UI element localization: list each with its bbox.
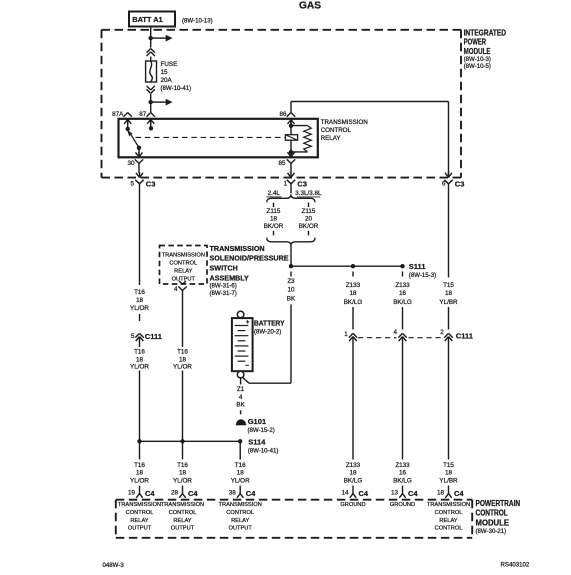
svg-text:OUTPUT: OUTPUT: [128, 526, 152, 532]
svg-text:13: 13: [391, 490, 399, 497]
svg-text:CONTROL: CONTROL: [321, 127, 352, 134]
svg-text:16: 16: [399, 290, 407, 297]
svg-text:T16: T16: [177, 462, 188, 469]
svg-text:TRANSMISSION: TRANSMISSION: [118, 502, 161, 508]
svg-text:POWERTRAIN: POWERTRAIN: [476, 499, 521, 508]
svg-text:(8W-30-21): (8W-30-21): [476, 528, 507, 535]
svg-text:YL/OR: YL/OR: [130, 305, 149, 312]
svg-text:5: 5: [130, 181, 134, 188]
svg-text:GROUND: GROUND: [340, 502, 365, 508]
svg-text:18: 18: [136, 356, 144, 363]
svg-text:28: 28: [171, 490, 179, 497]
svg-text:(8W-15-3): (8W-15-3): [409, 272, 436, 279]
svg-text:18: 18: [270, 216, 278, 223]
svg-text:18: 18: [136, 297, 144, 304]
svg-text:86: 86: [279, 111, 287, 118]
svg-text:CONTROL: CONTROL: [435, 526, 463, 532]
svg-text:T16: T16: [235, 462, 246, 469]
svg-text:C4: C4: [246, 489, 256, 498]
svg-text:POWER: POWER: [464, 38, 487, 47]
svg-text:85: 85: [278, 160, 286, 167]
svg-text:(8W-10-13): (8W-10-13): [182, 18, 213, 25]
svg-text:Z115: Z115: [302, 208, 316, 215]
svg-text:T16: T16: [177, 349, 188, 356]
svg-text:CONTROL: CONTROL: [435, 510, 463, 516]
svg-text:RELAY: RELAY: [130, 518, 148, 524]
svg-text:OUTPUT: OUTPUT: [229, 526, 253, 532]
svg-text:SWITCH: SWITCH: [210, 264, 238, 273]
svg-text:YL/OR: YL/OR: [130, 363, 149, 370]
svg-text:87: 87: [139, 111, 147, 118]
svg-text:3.3L/3.8L: 3.3L/3.8L: [295, 190, 322, 197]
svg-text:MODULE: MODULE: [476, 518, 510, 527]
svg-text:C3: C3: [455, 180, 465, 189]
svg-text:YL/OR: YL/OR: [231, 477, 250, 484]
svg-text:YL/BR: YL/BR: [439, 299, 458, 306]
svg-text:SOLENOID/PRESSURE: SOLENOID/PRESSURE: [210, 254, 289, 263]
svg-text:BK/LG: BK/LG: [344, 477, 363, 484]
svg-text:YL/OR: YL/OR: [130, 477, 149, 484]
svg-text:C4: C4: [359, 489, 369, 498]
svg-text:TRANSMISSION: TRANSMISSION: [427, 502, 470, 508]
svg-text:C4: C4: [188, 489, 198, 498]
svg-text:RELAY: RELAY: [231, 518, 249, 524]
svg-text:4: 4: [239, 394, 243, 401]
svg-text:4: 4: [174, 286, 178, 293]
svg-text:(8W-10-3): (8W-10-3): [464, 56, 491, 63]
svg-text:Z133: Z133: [395, 462, 410, 469]
svg-text:14: 14: [341, 490, 349, 497]
svg-text:MODULE: MODULE: [464, 47, 491, 56]
svg-text:C111: C111: [456, 331, 473, 340]
svg-text:5: 5: [131, 333, 135, 340]
svg-text:T16: T16: [134, 349, 145, 356]
svg-text:18: 18: [445, 290, 453, 297]
svg-text:BK/LG: BK/LG: [393, 477, 412, 484]
svg-text:BATT A1: BATT A1: [132, 15, 162, 24]
svg-text:C4: C4: [408, 489, 418, 498]
svg-text:RS403102: RS403102: [501, 562, 530, 569]
svg-text:G101: G101: [248, 417, 266, 426]
svg-text:RELAY: RELAY: [173, 518, 191, 524]
svg-text:18: 18: [237, 470, 245, 477]
svg-text:10: 10: [287, 287, 295, 294]
svg-text:CONTROL: CONTROL: [126, 510, 154, 516]
svg-text:T16: T16: [134, 289, 145, 296]
svg-text:BK: BK: [236, 401, 245, 408]
svg-text:C4: C4: [145, 489, 155, 498]
svg-text:18: 18: [136, 470, 144, 477]
svg-text:BK/LG: BK/LG: [393, 299, 412, 306]
svg-text:20A: 20A: [161, 77, 173, 84]
svg-text:18: 18: [179, 470, 187, 477]
svg-text:Z133: Z133: [395, 282, 410, 289]
svg-text:6: 6: [442, 181, 446, 188]
svg-text:CONTROL: CONTROL: [169, 261, 197, 267]
svg-text:Z133: Z133: [346, 282, 361, 289]
svg-text:(8W-15-2): (8W-15-2): [248, 427, 275, 434]
svg-text:CONTROL: CONTROL: [476, 509, 508, 518]
svg-text:CONTROL: CONTROL: [226, 510, 254, 516]
svg-text:S111: S111: [409, 262, 426, 271]
svg-text:TRANSMISSION: TRANSMISSION: [162, 253, 205, 259]
svg-text:GAS: GAS: [299, 0, 321, 11]
svg-text:CONTROL: CONTROL: [169, 510, 197, 516]
svg-text:2: 2: [440, 329, 444, 336]
svg-text:OUTPUT: OUTPUT: [172, 276, 196, 282]
svg-text:Z3: Z3: [287, 278, 295, 285]
svg-text:C4: C4: [454, 489, 464, 498]
svg-text:2.4L: 2.4L: [268, 190, 281, 197]
svg-text:YL/OR: YL/OR: [173, 363, 192, 370]
svg-text:C3: C3: [297, 180, 307, 189]
svg-text:(8W-10-41): (8W-10-41): [248, 447, 279, 454]
svg-text:BK/LG: BK/LG: [344, 299, 363, 306]
svg-text:(8W-10-5): (8W-10-5): [464, 63, 491, 70]
svg-text:(8W-20-2): (8W-20-2): [254, 329, 281, 336]
svg-text:(8W-10-41): (8W-10-41): [161, 85, 192, 92]
svg-text:18: 18: [437, 490, 445, 497]
svg-text:19: 19: [128, 490, 136, 497]
svg-text:T15: T15: [443, 462, 454, 469]
svg-text:(8W-31-6): (8W-31-6): [210, 282, 237, 289]
svg-text:GROUND: GROUND: [390, 502, 415, 508]
svg-text:18: 18: [179, 356, 187, 363]
svg-text:BK/OR: BK/OR: [264, 223, 284, 230]
svg-text:87A: 87A: [112, 111, 124, 118]
svg-text:YL/BR: YL/BR: [439, 477, 458, 484]
svg-text:1: 1: [344, 331, 348, 338]
svg-text:RELAY: RELAY: [439, 518, 457, 524]
svg-text:ASSEMBLY: ASSEMBLY: [210, 273, 249, 282]
svg-text:(8W-31-7): (8W-31-7): [210, 290, 237, 297]
svg-text:Z133: Z133: [346, 462, 361, 469]
svg-text:FUSE: FUSE: [161, 61, 178, 68]
svg-text:YL/OR: YL/OR: [173, 477, 192, 484]
svg-text:RELAY: RELAY: [174, 269, 192, 275]
svg-text:C111: C111: [145, 332, 162, 341]
svg-text:TRANSMISSION: TRANSMISSION: [219, 502, 262, 508]
svg-text:16: 16: [399, 470, 407, 477]
svg-text:INTEGRATED: INTEGRATED: [464, 28, 507, 37]
svg-text:18: 18: [445, 470, 453, 477]
svg-text:S114: S114: [248, 438, 266, 447]
svg-text:BK: BK: [287, 296, 296, 303]
svg-text:Z115: Z115: [267, 208, 281, 215]
svg-text:RELAY: RELAY: [321, 135, 341, 142]
svg-text:C3: C3: [146, 180, 156, 189]
svg-text:T16: T16: [134, 462, 145, 469]
svg-text:4: 4: [394, 329, 398, 336]
svg-text:−: −: [245, 363, 249, 370]
svg-text:TRANSMISSION: TRANSMISSION: [161, 502, 204, 508]
svg-text:30: 30: [127, 160, 135, 167]
svg-text:048W-3: 048W-3: [103, 562, 125, 569]
svg-text:20: 20: [305, 216, 313, 223]
svg-text:TRANSMISSION: TRANSMISSION: [210, 244, 265, 253]
svg-text:BK/OR: BK/OR: [299, 223, 319, 230]
svg-text:TRANSMISSION: TRANSMISSION: [321, 119, 368, 126]
svg-text:1: 1: [284, 181, 288, 188]
svg-text:OUTPUT: OUTPUT: [171, 526, 195, 532]
svg-text:18: 18: [349, 470, 357, 477]
svg-text:BATTERY: BATTERY: [254, 318, 285, 327]
svg-text:T15: T15: [443, 282, 454, 289]
svg-text:38: 38: [229, 490, 237, 497]
svg-text:Z1: Z1: [237, 386, 245, 393]
svg-text:15: 15: [161, 69, 169, 76]
svg-text:+: +: [246, 319, 250, 326]
svg-text:18: 18: [349, 290, 357, 297]
